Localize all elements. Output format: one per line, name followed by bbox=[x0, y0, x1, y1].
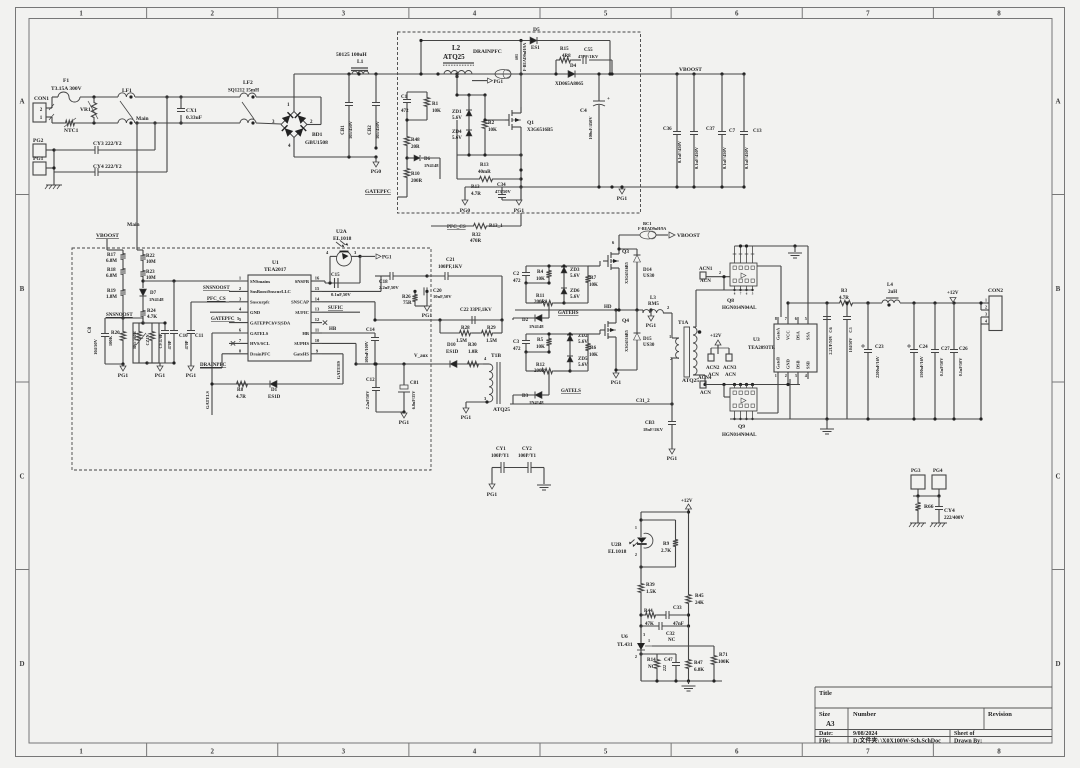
svg-text:GATELS: GATELS bbox=[561, 389, 581, 394]
svg-text:X3G6516B5: X3G6516B5 bbox=[527, 128, 553, 133]
svg-text:470P: 470P bbox=[184, 340, 189, 349]
svg-text:+12V: +12V bbox=[947, 291, 959, 296]
svg-text:8: 8 bbox=[997, 10, 1001, 18]
svg-text:50125 100uH: 50125 100uH bbox=[336, 52, 367, 58]
svg-text:HB: HB bbox=[329, 327, 337, 332]
svg-text:4.7K: 4.7K bbox=[147, 315, 157, 320]
svg-text:US30: US30 bbox=[643, 274, 655, 279]
svg-text:L4: L4 bbox=[887, 283, 893, 288]
svg-text:GATEHS: GATEHS bbox=[558, 311, 579, 316]
svg-text:R9: R9 bbox=[663, 542, 670, 547]
svg-text:472: 472 bbox=[513, 347, 521, 352]
svg-text:R65 560R: R65 560R bbox=[132, 330, 137, 349]
svg-text:File:: File: bbox=[819, 739, 831, 745]
svg-text:ACN: ACN bbox=[700, 391, 711, 396]
svg-text:ES1D: ES1D bbox=[268, 395, 281, 400]
svg-text:1N4148: 1N4148 bbox=[149, 297, 164, 302]
svg-text:R4: R4 bbox=[537, 270, 544, 275]
svg-text:R71: R71 bbox=[719, 653, 728, 658]
svg-text:0.1uF/50V: 0.1uF/50V bbox=[939, 358, 944, 377]
svg-text:1: 1 bbox=[79, 748, 83, 756]
svg-text:GND: GND bbox=[786, 359, 791, 369]
svg-text:ACN2: ACN2 bbox=[706, 366, 720, 371]
svg-text:C: C bbox=[1055, 472, 1060, 480]
svg-text:2: 2 bbox=[985, 305, 987, 310]
svg-text:PG1: PG1 bbox=[646, 323, 657, 329]
svg-text:EL1018: EL1018 bbox=[608, 549, 627, 555]
svg-text:R15: R15 bbox=[560, 47, 569, 52]
svg-text:PG1: PG1 bbox=[155, 373, 166, 379]
svg-text:Size: Size bbox=[819, 711, 830, 718]
svg-text:PG1: PG1 bbox=[382, 256, 392, 261]
svg-text:GATEHS: GATEHS bbox=[336, 360, 341, 379]
svg-text:NC: NC bbox=[668, 638, 676, 643]
svg-text:3: 3 bbox=[342, 748, 346, 756]
svg-text:ACN: ACN bbox=[725, 373, 736, 378]
svg-text:6.8K: 6.8K bbox=[694, 668, 704, 673]
svg-text:222: 222 bbox=[662, 665, 667, 671]
svg-text:R14: R14 bbox=[647, 658, 656, 663]
svg-text:C32: C32 bbox=[666, 632, 675, 637]
svg-text:PG1: PG1 bbox=[494, 80, 504, 85]
svg-text:473/50V: 473/50V bbox=[495, 189, 512, 194]
svg-text:+12V: +12V bbox=[710, 334, 722, 339]
svg-text:10K: 10K bbox=[589, 283, 598, 288]
svg-text:R7: R7 bbox=[590, 276, 597, 281]
svg-text:C4: C4 bbox=[580, 108, 587, 114]
svg-text:CY3 222/Y2: CY3 222/Y2 bbox=[93, 141, 122, 147]
svg-text:#01: #01 bbox=[514, 54, 519, 60]
svg-text:1: 1 bbox=[775, 373, 777, 378]
svg-text:12: 12 bbox=[315, 317, 320, 322]
svg-text:SNSmains: SNSmains bbox=[250, 279, 270, 284]
svg-text:C12: C12 bbox=[366, 378, 375, 383]
svg-text:C2: C2 bbox=[513, 272, 520, 277]
svg-text:3: 3 bbox=[643, 632, 645, 637]
svg-text:GBU1508: GBU1508 bbox=[305, 140, 328, 146]
svg-text:10K: 10K bbox=[589, 353, 598, 358]
svg-text:ES1D: ES1D bbox=[446, 350, 459, 355]
svg-text:GateA: GateA bbox=[776, 327, 781, 340]
svg-text:D5: D5 bbox=[533, 27, 540, 33]
svg-text:5: 5 bbox=[604, 10, 608, 18]
svg-text:2: 2 bbox=[719, 270, 721, 275]
svg-text:CY4 222/Y2: CY4 222/Y2 bbox=[93, 164, 122, 170]
svg-text:5.6V: 5.6V bbox=[570, 274, 580, 279]
svg-text:HD: HD bbox=[604, 305, 612, 310]
svg-text:1N4148: 1N4148 bbox=[529, 324, 544, 329]
svg-text:2.7K: 2.7K bbox=[661, 549, 671, 554]
svg-text:R26: R26 bbox=[402, 295, 411, 300]
svg-text:ZD5: ZD5 bbox=[578, 357, 588, 362]
svg-text:C11: C11 bbox=[195, 334, 204, 339]
svg-text:C21: C21 bbox=[446, 258, 455, 263]
svg-text:6: 6 bbox=[735, 748, 739, 756]
svg-text:C3: C3 bbox=[513, 340, 520, 345]
svg-text:HGN014N04AL: HGN014N04AL bbox=[722, 433, 757, 438]
svg-text:PG1: PG1 bbox=[186, 373, 197, 379]
svg-text:CY4: CY4 bbox=[944, 508, 955, 514]
svg-text:5.6V: 5.6V bbox=[578, 363, 588, 368]
svg-text:GateHS: GateHS bbox=[293, 352, 309, 357]
svg-text:PG1: PG1 bbox=[667, 456, 678, 462]
svg-text:100P/Y1: 100P/Y1 bbox=[518, 454, 537, 459]
svg-text:U2A: U2A bbox=[336, 229, 347, 235]
svg-text:R20: R20 bbox=[111, 331, 120, 336]
svg-text:6.8M: 6.8M bbox=[106, 274, 117, 279]
svg-text:VCC: VCC bbox=[786, 330, 791, 340]
svg-text:15: 15 bbox=[315, 286, 320, 291]
svg-text:R13: R13 bbox=[480, 163, 489, 168]
svg-text:R66: R66 bbox=[924, 504, 934, 510]
svg-text:R22: R22 bbox=[146, 254, 155, 259]
svg-text:24K: 24K bbox=[695, 601, 704, 606]
svg-text:PG1: PG1 bbox=[33, 156, 44, 162]
svg-text:1.5M: 1.5M bbox=[456, 339, 467, 344]
svg-text:4: 4 bbox=[985, 319, 987, 324]
svg-text:D4: D4 bbox=[570, 64, 577, 69]
svg-text:VBOOST: VBOOST bbox=[96, 233, 119, 239]
svg-text:Title: Title bbox=[819, 690, 832, 697]
svg-text:SUFIC: SUFIC bbox=[295, 310, 309, 315]
svg-text:L3: L3 bbox=[650, 296, 656, 301]
svg-text:CB3: CB3 bbox=[645, 421, 655, 426]
svg-text:C31_2: C31_2 bbox=[636, 399, 650, 404]
svg-text:104/50V: 104/50V bbox=[848, 338, 853, 353]
svg-text:CON2: CON2 bbox=[988, 288, 1003, 294]
svg-text:TEA2017: TEA2017 bbox=[264, 267, 287, 273]
svg-text:PG0: PG0 bbox=[460, 208, 471, 214]
svg-text:PG1: PG1 bbox=[118, 373, 129, 379]
svg-text:ATQ25: ATQ25 bbox=[682, 378, 699, 384]
svg-text:GND: GND bbox=[250, 310, 261, 315]
svg-text:5: 5 bbox=[805, 316, 807, 321]
svg-text:2: 2 bbox=[635, 654, 637, 659]
svg-text:2.2uF,50V: 2.2uF,50V bbox=[379, 285, 399, 290]
svg-text:D10: D10 bbox=[447, 343, 456, 348]
svg-text:470P: 470P bbox=[167, 340, 172, 349]
svg-text:ATQ25: ATQ25 bbox=[443, 53, 465, 61]
svg-text:PG1: PG1 bbox=[461, 415, 472, 421]
svg-text:XD065A8065: XD065A8065 bbox=[555, 82, 584, 87]
svg-text:11: 11 bbox=[315, 328, 320, 333]
svg-text:R39: R39 bbox=[646, 583, 655, 588]
svg-text:EL1018: EL1018 bbox=[333, 236, 352, 242]
svg-text:HVS/SCL: HVS/SCL bbox=[250, 341, 270, 346]
svg-text:SNSCAP: SNSCAP bbox=[291, 300, 309, 305]
svg-text:A3: A3 bbox=[826, 720, 835, 728]
svg-text:SSA: SSA bbox=[806, 331, 811, 340]
svg-text:F-BEAD9nH/9A: F-BEAD9nH/9A bbox=[638, 226, 666, 231]
svg-text:C13: C13 bbox=[753, 129, 762, 134]
svg-text:222/400V: 222/400V bbox=[944, 516, 964, 521]
svg-text:R30: R30 bbox=[468, 343, 477, 348]
svg-text:Sheet of: Sheet of bbox=[954, 731, 975, 737]
svg-text:GATELS: GATELS bbox=[205, 391, 210, 409]
svg-text:L2: L2 bbox=[452, 44, 461, 52]
svg-text:C33: C33 bbox=[673, 606, 682, 611]
svg-text:Number: Number bbox=[853, 711, 876, 718]
svg-text:B: B bbox=[1056, 285, 1061, 293]
svg-text:6.8M: 6.8M bbox=[106, 259, 117, 264]
svg-text:D15: D15 bbox=[643, 337, 652, 342]
svg-text:200R: 200R bbox=[411, 179, 423, 184]
svg-text:T1A: T1A bbox=[678, 320, 688, 326]
svg-text:A: A bbox=[1055, 97, 1060, 105]
svg-text:CON1: CON1 bbox=[34, 96, 49, 102]
svg-text:C22 33PF,1KV: C22 33PF,1KV bbox=[460, 308, 492, 313]
svg-text:R12: R12 bbox=[536, 363, 545, 368]
svg-text:CX1: CX1 bbox=[186, 108, 197, 114]
svg-text:10K: 10K bbox=[432, 109, 441, 114]
svg-text:0.1uF/50V: 0.1uF/50V bbox=[958, 358, 963, 377]
svg-text:X3G6516B5: X3G6516B5 bbox=[624, 330, 629, 352]
svg-text:8: 8 bbox=[997, 748, 1001, 756]
svg-text:VR1: VR1 bbox=[80, 107, 91, 113]
svg-text:3: 3 bbox=[342, 10, 346, 18]
svg-text:10M: 10M bbox=[146, 276, 156, 281]
svg-text:C9 470P: C9 470P bbox=[158, 333, 163, 348]
svg-text:T1B: T1B bbox=[491, 353, 501, 359]
svg-text:Q3: Q3 bbox=[622, 249, 629, 255]
svg-text:6: 6 bbox=[795, 316, 797, 321]
svg-text:D: D bbox=[19, 660, 24, 668]
svg-text:0.1uF/450V: 0.1uF/450V bbox=[694, 146, 699, 169]
svg-text:SUFIC: SUFIC bbox=[328, 306, 343, 311]
svg-text:SUPHS: SUPHS bbox=[294, 341, 309, 346]
svg-text:R6: R6 bbox=[590, 346, 597, 351]
svg-text:D14: D14 bbox=[643, 268, 652, 273]
svg-text:PG4: PG4 bbox=[933, 469, 943, 474]
svg-text:ZD3: ZD3 bbox=[570, 268, 580, 273]
svg-text:US30: US30 bbox=[643, 343, 655, 348]
svg-text:T3.15A 300V: T3.15A 300V bbox=[51, 86, 82, 92]
svg-text:2200uF/16V: 2200uF/16V bbox=[875, 356, 880, 378]
svg-text:ES1: ES1 bbox=[531, 46, 540, 51]
svg-text:4.7R: 4.7R bbox=[839, 296, 849, 301]
svg-text:PG3: PG3 bbox=[911, 469, 921, 474]
svg-text:+: + bbox=[607, 97, 610, 102]
svg-text:10nF,50V: 10nF,50V bbox=[433, 294, 452, 299]
svg-text:104/50V: 104/50V bbox=[93, 338, 98, 355]
svg-text:PG1: PG1 bbox=[487, 492, 498, 498]
svg-text:CZ1N: CZ1N bbox=[145, 335, 150, 346]
svg-text:Drawn By:: Drawn By: bbox=[954, 739, 982, 745]
svg-text:0.1uF/450V: 0.1uF/450V bbox=[677, 140, 682, 163]
svg-text:20R: 20R bbox=[411, 145, 420, 150]
svg-text:R18: R18 bbox=[107, 268, 116, 273]
svg-text:CY1: CY1 bbox=[496, 447, 506, 452]
svg-text:R5: R5 bbox=[537, 338, 544, 343]
svg-text:B: B bbox=[20, 285, 25, 293]
svg-text:7: 7 bbox=[785, 316, 787, 321]
svg-text:SNSNOOST: SNSNOOST bbox=[106, 313, 133, 318]
svg-text:1: 1 bbox=[635, 525, 637, 530]
svg-text:R23: R23 bbox=[146, 270, 155, 275]
svg-text:R28: R28 bbox=[461, 326, 470, 331]
svg-text:Q4: Q4 bbox=[622, 318, 629, 324]
svg-text:7: 7 bbox=[866, 10, 870, 18]
svg-text:U1: U1 bbox=[272, 260, 279, 266]
svg-text:3: 3 bbox=[795, 373, 797, 378]
svg-text:RM5: RM5 bbox=[648, 302, 659, 307]
svg-text:2.2uF/50V: 2.2uF/50V bbox=[365, 391, 370, 410]
svg-text:C1: C1 bbox=[401, 95, 408, 100]
svg-text:C81: C81 bbox=[410, 381, 419, 386]
svg-text:NTC1: NTC1 bbox=[64, 128, 79, 134]
svg-text:PG1: PG1 bbox=[422, 313, 433, 319]
svg-text:C55: C55 bbox=[584, 48, 593, 53]
svg-text:DSA: DSA bbox=[796, 330, 801, 340]
svg-text:SNSNOOST: SNSNOOST bbox=[203, 286, 230, 291]
svg-text:C: C bbox=[19, 472, 24, 480]
svg-text:C24: C24 bbox=[919, 345, 928, 350]
svg-text:ZD6: ZD6 bbox=[570, 289, 580, 294]
svg-text:Q9: Q9 bbox=[738, 424, 745, 430]
svg-text:R45: R45 bbox=[695, 594, 704, 599]
svg-text:1500uF/16V: 1500uF/16V bbox=[919, 356, 924, 378]
svg-text:R17: R17 bbox=[107, 253, 116, 258]
svg-text:PG1: PG1 bbox=[611, 380, 622, 386]
svg-text:2.2UF/50V: 2.2UF/50V bbox=[828, 335, 833, 354]
svg-text:R1: R1 bbox=[432, 102, 439, 107]
svg-text:GateB: GateB bbox=[776, 357, 781, 369]
svg-text:1.5K: 1.5K bbox=[646, 590, 656, 595]
svg-text:VBOOST: VBOOST bbox=[677, 233, 700, 239]
svg-text:2: 2 bbox=[785, 373, 787, 378]
svg-text:PG1: PG1 bbox=[617, 196, 628, 202]
svg-text:100K: 100K bbox=[108, 335, 113, 346]
svg-text:NC: NC bbox=[648, 665, 656, 670]
svg-text:Q8: Q8 bbox=[727, 298, 734, 304]
svg-text:40mR: 40mR bbox=[478, 170, 491, 175]
svg-text:R47: R47 bbox=[694, 661, 703, 666]
svg-text:U2B: U2B bbox=[611, 542, 622, 548]
svg-text:U3: U3 bbox=[753, 337, 760, 343]
svg-text:105/450V: 105/450V bbox=[348, 120, 353, 139]
svg-text:1N4148: 1N4148 bbox=[424, 163, 439, 168]
svg-text:C27: C27 bbox=[941, 347, 950, 352]
svg-text:1: 1 bbox=[985, 298, 987, 303]
svg-text:R2: R2 bbox=[488, 121, 495, 126]
svg-text:1: 1 bbox=[79, 10, 83, 18]
svg-text:16: 16 bbox=[315, 276, 320, 281]
svg-text:10K: 10K bbox=[536, 277, 545, 282]
svg-text:C23: C23 bbox=[875, 345, 884, 350]
svg-text:TEA2093TE: TEA2093TE bbox=[748, 346, 776, 351]
svg-text:CB1: CB1 bbox=[341, 125, 346, 135]
svg-text:8: 8 bbox=[775, 316, 777, 321]
svg-text:0.1uF,50V: 0.1uF,50V bbox=[331, 292, 351, 297]
svg-text:GATEPPChVS|SDA: GATEPPChVS|SDA bbox=[250, 320, 291, 325]
svg-text:0.1uF/450V: 0.1uF/450V bbox=[722, 146, 727, 169]
svg-text:VBOOST: VBOOST bbox=[679, 67, 702, 73]
svg-text:HB: HB bbox=[302, 331, 309, 336]
svg-text:6.8uF/35V: 6.8uF/35V bbox=[411, 391, 416, 410]
svg-text:DRAINPFC: DRAINPFC bbox=[473, 49, 502, 55]
svg-text:105/450V: 105/450V bbox=[375, 120, 380, 139]
svg-text:75R: 75R bbox=[403, 301, 412, 306]
svg-text:2: 2 bbox=[210, 748, 214, 756]
svg-text:CB2: CB2 bbox=[368, 125, 373, 135]
svg-text:18nF/1KV: 18nF/1KV bbox=[643, 427, 664, 432]
svg-text:SnsBoostSnscurLLC: SnsBoostSnscurLLC bbox=[250, 289, 291, 294]
svg-text:4R8: 4R8 bbox=[562, 54, 571, 59]
svg-text:C8: C8 bbox=[88, 326, 93, 333]
svg-text:1.0R: 1.0R bbox=[468, 350, 478, 355]
svg-text:472: 472 bbox=[513, 279, 521, 284]
svg-text:PG1: PG1 bbox=[399, 420, 410, 426]
svg-text:3: 3 bbox=[985, 312, 987, 317]
svg-text:D3: D3 bbox=[522, 394, 529, 399]
svg-text:U6: U6 bbox=[621, 634, 628, 640]
svg-text:ACN: ACN bbox=[700, 279, 711, 284]
svg-text:Q1: Q1 bbox=[527, 120, 534, 126]
svg-text:10K: 10K bbox=[536, 345, 545, 350]
svg-text:HGN014N04AL: HGN014N04AL bbox=[722, 306, 757, 311]
svg-text:C26: C26 bbox=[959, 347, 968, 352]
svg-text:C15: C15 bbox=[331, 273, 340, 278]
svg-text:F1: F1 bbox=[63, 78, 69, 84]
svg-text:C37: C37 bbox=[706, 127, 715, 132]
svg-text:DRAINPFC: DRAINPFC bbox=[200, 363, 226, 368]
svg-text:5.6V: 5.6V bbox=[570, 295, 580, 300]
svg-text:47PF/1KV: 47PF/1KV bbox=[578, 54, 599, 59]
svg-text:C6: C6 bbox=[828, 327, 833, 333]
svg-text:D: D bbox=[1055, 660, 1060, 668]
svg-text:0.1uF/450V: 0.1uF/450V bbox=[744, 146, 749, 169]
svg-text:0.33uF: 0.33uF bbox=[186, 115, 203, 121]
svg-text:472: 472 bbox=[401, 109, 409, 114]
svg-text:PG1: PG1 bbox=[514, 208, 525, 214]
svg-text:R19: R19 bbox=[107, 289, 116, 294]
svg-text:100K: 100K bbox=[718, 660, 730, 665]
svg-text:ACN4: ACN4 bbox=[698, 376, 712, 381]
svg-text:D7: D7 bbox=[150, 291, 157, 296]
svg-text:14: 14 bbox=[315, 296, 320, 301]
svg-text:1.8M: 1.8M bbox=[106, 295, 117, 300]
svg-text:CY2: CY2 bbox=[522, 447, 532, 452]
svg-text:10K: 10K bbox=[488, 128, 497, 133]
svg-text:6: 6 bbox=[735, 10, 739, 18]
svg-text:R32: R32 bbox=[472, 233, 481, 238]
svg-text:TL431: TL431 bbox=[617, 642, 633, 648]
svg-text:DSB: DSB bbox=[796, 360, 801, 369]
svg-text:D:文件夹\ \X0X100W-Sch.SchDoc: D:文件夹\ \X0X100W-Sch.SchDoc bbox=[853, 737, 941, 745]
svg-text:ACN1: ACN1 bbox=[699, 267, 713, 272]
svg-text:C47: C47 bbox=[664, 658, 673, 663]
svg-text:LF2: LF2 bbox=[243, 80, 253, 86]
svg-text:ZD1: ZD1 bbox=[452, 110, 462, 115]
svg-text:100P/Y1: 100P/Y1 bbox=[491, 454, 510, 459]
svg-text:PG0: PG0 bbox=[371, 169, 382, 175]
svg-text:R48: R48 bbox=[411, 138, 420, 143]
svg-text:9/08/2024: 9/08/2024 bbox=[853, 731, 877, 737]
svg-text:2uH: 2uH bbox=[888, 290, 897, 295]
svg-text:7: 7 bbox=[866, 748, 870, 756]
svg-text:ZD2: ZD2 bbox=[578, 334, 588, 339]
svg-text:4: 4 bbox=[473, 10, 477, 18]
svg-text:GATELS: GATELS bbox=[250, 331, 269, 336]
svg-text:470R: 470R bbox=[470, 239, 482, 244]
svg-text:A: A bbox=[19, 97, 24, 105]
svg-text:Date:: Date: bbox=[819, 731, 833, 737]
svg-text:SSB: SSB bbox=[806, 361, 811, 369]
svg-text:13: 13 bbox=[315, 307, 320, 312]
svg-text:R24: R24 bbox=[147, 309, 156, 314]
svg-text:100PF,1KV: 100PF,1KV bbox=[438, 265, 463, 270]
svg-text:DrainPFC: DrainPFC bbox=[250, 352, 270, 357]
